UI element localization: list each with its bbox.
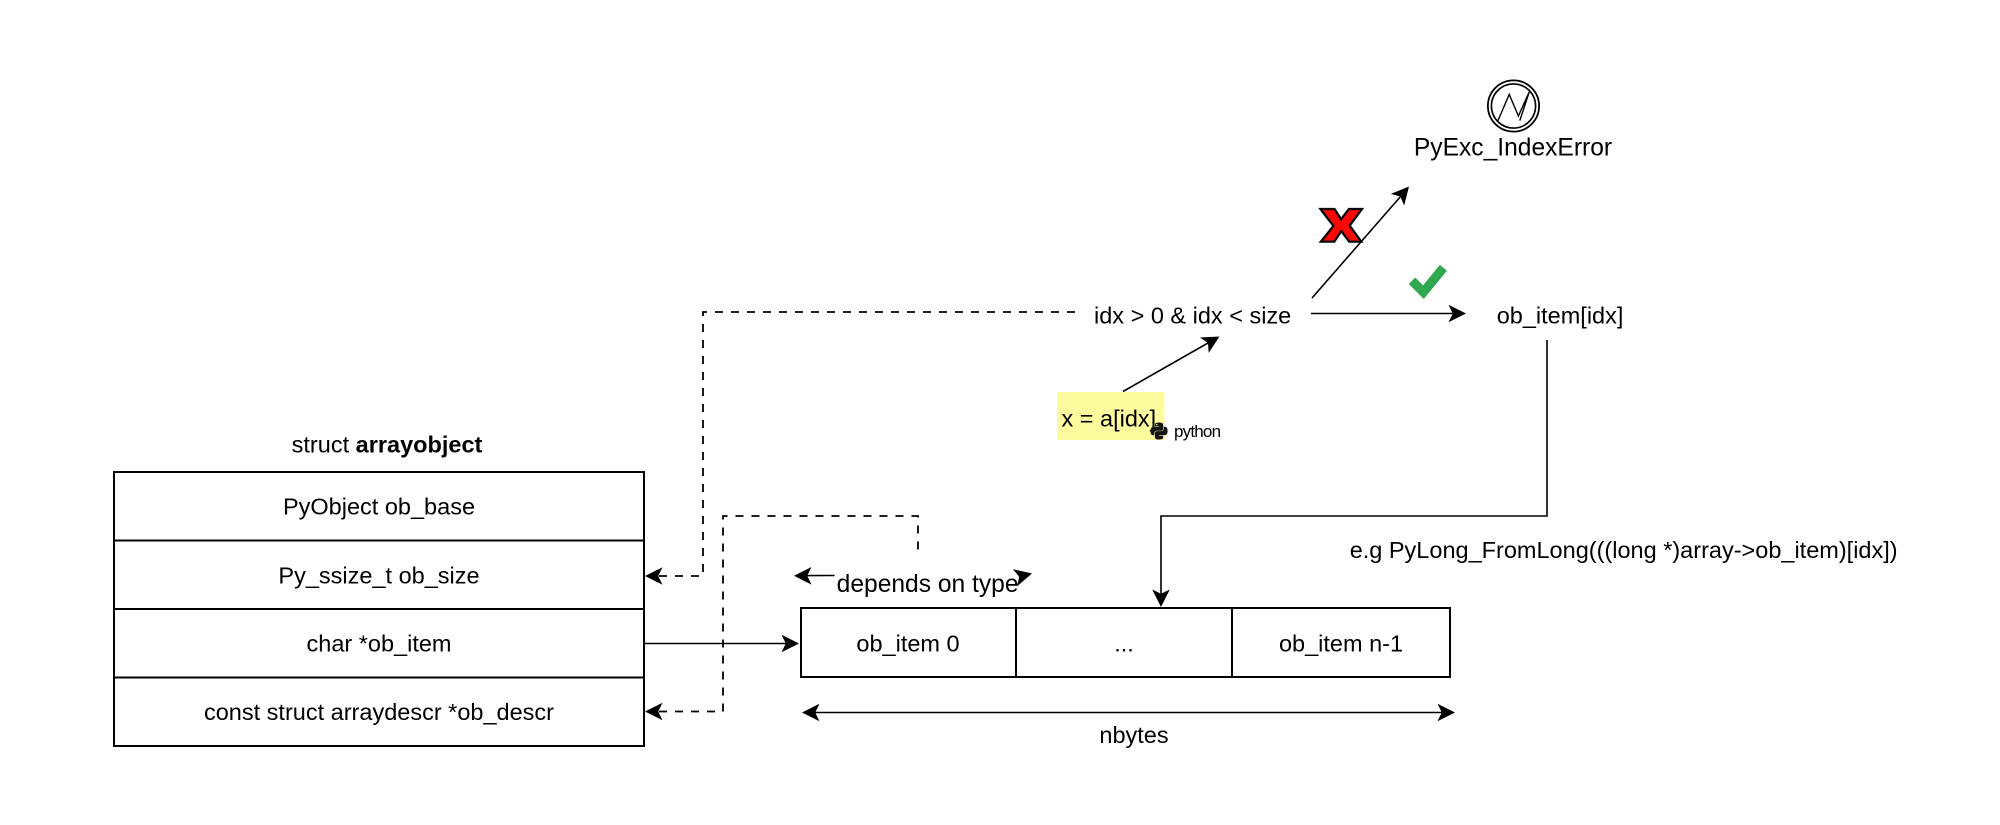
svg-text:PyExc_IndexError: PyExc_IndexError [1414,135,1612,162]
svg-text:Py_ssize_t ob_size: Py_ssize_t ob_size [278,563,479,589]
svg-text:ob_item[idx]: ob_item[idx] [1497,303,1624,329]
svg-text:struct arrayobject: struct arrayobject [292,432,483,458]
svg-text:e.g PyLong_FromLong(((long *)a: e.g PyLong_FromLong(((long *)array->ob_i… [1350,537,1898,563]
svg-text:nbytes: nbytes [1099,722,1168,748]
svg-text:PyObject ob_base: PyObject ob_base [283,494,475,520]
svg-text:depends on type: depends on type [837,571,1019,598]
svg-text:x = a[idx]: x = a[idx] [1062,406,1157,432]
svg-text:ob_item n-1: ob_item n-1 [1279,631,1403,657]
svg-text:...: ... [1114,631,1134,657]
svg-text:ob_item 0: ob_item 0 [856,631,959,657]
svg-text:char *ob_item: char *ob_item [307,631,452,657]
svg-text:const struct arraydescr *ob_de: const struct arraydescr *ob_descr [204,699,554,725]
svg-text:python: python [1174,422,1221,441]
svg-text:idx > 0 & idx < size: idx > 0 & idx < size [1094,303,1291,329]
